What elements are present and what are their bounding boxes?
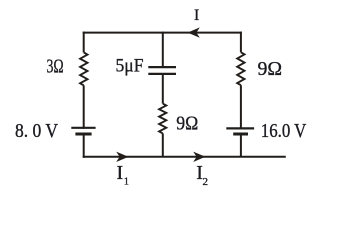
resistor R 3ohm <box>80 53 87 86</box>
battery B2 long plate <box>226 127 254 129</box>
wire bottom horizontal <box>83 156 286 158</box>
svg-text:8. 0 V: 8. 0 V <box>15 120 58 142</box>
wire left branch middle <box>83 85 85 128</box>
wire middle branch upper <box>162 32 164 66</box>
svg-text:2: 2 <box>203 176 209 188</box>
wire right branch upper <box>240 32 242 53</box>
wire top horizontal <box>83 32 242 34</box>
wire middle branch middle <box>162 75 164 104</box>
resistor R 9ohm middle <box>159 104 166 134</box>
wire left branch lower <box>83 136 85 158</box>
arrow current I (points left on top wire) <box>188 27 200 37</box>
battery B1 short plate <box>75 133 91 136</box>
wire middle branch lower <box>162 133 164 156</box>
battery B1 long plate <box>71 127 95 129</box>
svg-text:16.0 V: 16.0 V <box>261 120 307 142</box>
capacitor C 5uF bottom plate <box>148 73 176 75</box>
arrow current I1 (points right on bottom wire) <box>116 152 128 162</box>
wire left branch upper <box>83 32 85 53</box>
svg-text:5μF: 5μF <box>116 56 144 77</box>
svg-text:9Ω: 9Ω <box>258 58 283 80</box>
arrow current I2 (points right on bottom wire) <box>193 152 205 162</box>
svg-text:I: I <box>194 7 199 24</box>
svg-text:3Ω: 3Ω <box>47 56 64 78</box>
svg-text:1: 1 <box>124 176 129 187</box>
svg-text:9Ω: 9Ω <box>176 112 198 134</box>
wire right branch middle <box>240 85 242 129</box>
capacitor C 5uF top plate <box>148 66 176 68</box>
battery B2 short plate <box>233 133 248 136</box>
wire right branch lower <box>240 136 242 157</box>
svg-text:I: I <box>117 162 124 184</box>
resistor R 9ohm right <box>237 52 244 85</box>
